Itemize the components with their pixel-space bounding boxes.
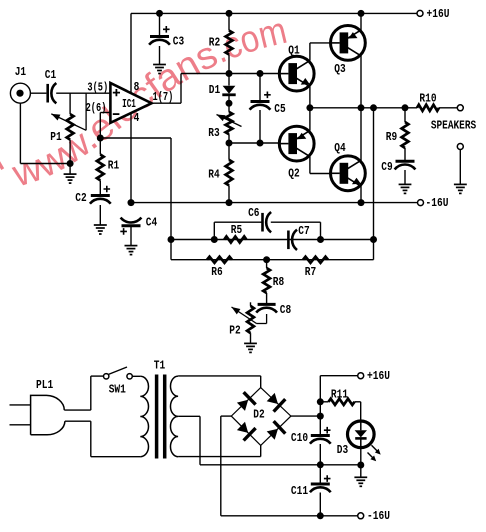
svg-text:Q2: Q2 <box>288 166 299 180</box>
ground under C9 <box>399 183 412 185</box>
wire C6 branch <box>213 222 215 239</box>
svg-text:R11: R11 <box>331 387 348 401</box>
wire -16V rail <box>131 202 418 204</box>
node D1-R3 junction <box>226 100 233 107</box>
node C11 bottom junction <box>317 512 324 519</box>
svg-text:Q4: Q4 <box>334 141 345 155</box>
resistor R6 <box>207 257 232 263</box>
capacitor C2 <box>104 186 111 193</box>
resistor R4 <box>228 143 230 160</box>
node C6 left junction <box>211 236 218 243</box>
svg-text:P1: P1 <box>50 130 61 144</box>
svg-text:1(7): 1(7) <box>153 90 174 104</box>
svg-text:R7: R7 <box>305 265 316 279</box>
wire plug bottom <box>65 420 91 422</box>
terminal speaker - <box>457 144 463 150</box>
node R1 junction <box>97 135 104 142</box>
capacitor C10 <box>324 427 331 434</box>
ground under C2 <box>94 224 107 226</box>
transistor Q4 <box>331 156 366 191</box>
node R2 top junction <box>226 10 233 17</box>
wire speaker - to ground <box>459 149 461 184</box>
svg-text:-16U: -16U <box>426 196 449 210</box>
wire secondary top to bridge <box>178 375 261 377</box>
svg-text:4: 4 <box>134 111 140 125</box>
resistor R1 <box>99 138 101 155</box>
wire output line <box>310 107 417 109</box>
wire secondary bottom to bridge <box>178 456 261 458</box>
svg-text:R1: R1 <box>108 158 119 172</box>
node pin4 C4 junction <box>128 199 135 206</box>
svg-text:R4: R4 <box>208 168 219 182</box>
wire P1 bottom to ground node <box>69 140 71 164</box>
connector J1 <box>10 83 30 103</box>
wire Q2 bottom to Q4 base <box>309 157 311 174</box>
wire C1 to op-amp pin3 <box>56 92 110 94</box>
wire J1 down <box>19 103 21 163</box>
svg-text:Q3: Q3 <box>334 62 345 76</box>
bridge diode upper-right <box>267 393 278 404</box>
svg-text:C10: C10 <box>291 431 308 445</box>
capacitor C3 <box>159 13 161 35</box>
wire Q1 emitter to output line <box>309 87 311 108</box>
op-amp IC1 <box>110 83 151 123</box>
D3 light arrows <box>372 445 379 452</box>
ground under C3 <box>153 64 166 66</box>
svg-text:D1: D1 <box>209 83 220 97</box>
terminal +16V top <box>417 10 423 16</box>
terminal +16V supply <box>358 373 364 379</box>
svg-text:8: 8 <box>134 80 140 94</box>
svg-text:R8: R8 <box>273 275 284 289</box>
wire Q1 collector to Q3 base <box>309 43 311 61</box>
resistor R9 <box>404 108 406 122</box>
svg-text:R3: R3 <box>208 126 219 140</box>
wire SW1 to T1 <box>132 375 140 377</box>
wire down to P1 top <box>69 93 71 114</box>
node C3 top junction <box>156 10 163 17</box>
svg-text:C3: C3 <box>173 34 184 48</box>
svg-text:T1: T1 <box>154 359 165 373</box>
wire op-amp pin4 to -16V rail <box>130 113 132 203</box>
LED D3 <box>348 421 375 448</box>
trimmer R3 <box>226 112 233 134</box>
plug PL1 <box>31 395 65 434</box>
svg-text:+16U: +16U <box>427 7 450 21</box>
node feedback branch junction <box>370 104 377 111</box>
terminal speaker + <box>457 105 463 111</box>
ground under P2 <box>244 342 257 344</box>
ground under C4 <box>125 245 138 247</box>
potentiometer P1 <box>67 114 74 140</box>
node R8 top junction <box>263 256 270 263</box>
svg-text:R10: R10 <box>419 91 436 105</box>
svg-text:SW1: SW1 <box>109 382 126 396</box>
terminal -16V right <box>418 200 424 206</box>
node bias A junction <box>226 70 233 77</box>
wire feedback vertical right <box>373 108 375 240</box>
wire +16V top rail <box>131 12 417 14</box>
resistor R8 <box>266 260 268 268</box>
wire feedback upper rail <box>171 239 374 241</box>
svg-text:C1: C1 <box>45 68 56 82</box>
svg-text:R2: R2 <box>209 35 220 49</box>
node feedback right junction <box>370 236 377 243</box>
svg-text:SPEAKERS: SPEAKERS <box>431 119 476 133</box>
resistor R7 <box>303 257 328 263</box>
svg-text:+16U: +16U <box>367 369 390 383</box>
svg-text:D3: D3 <box>337 443 348 457</box>
node feedback left junction <box>168 236 175 243</box>
svg-text:C9: C9 <box>381 160 392 174</box>
wire Q3 vertical +16V to output <box>360 13 362 107</box>
wire bridge minus <box>221 415 232 417</box>
transistor Q3 <box>331 26 366 61</box>
bridge rectifier D2 <box>231 388 291 446</box>
capacitor C11 <box>324 475 331 482</box>
node R11 junction <box>317 398 324 405</box>
resistor R2 <box>228 13 230 30</box>
capacitor C4 <box>121 218 142 223</box>
wire Q2 top to output line <box>309 108 311 131</box>
wire J1 to C1 <box>30 92 46 94</box>
svg-text:C4: C4 <box>146 215 157 229</box>
P1 wiper arrow to pin3 wire <box>51 114 86 130</box>
transformer T1 secondary coil <box>170 376 178 457</box>
svg-text:D2: D2 <box>253 407 264 421</box>
bridge diode lower-right <box>267 429 278 440</box>
wire feedback lower rail <box>171 259 374 261</box>
node Q1-Q2 output junction <box>306 104 313 111</box>
svg-text:C6: C6 <box>248 206 259 220</box>
capacitor C7 <box>287 231 290 250</box>
wire plug top to SW1 <box>64 409 91 411</box>
node C6 right junction <box>317 236 324 243</box>
svg-text:3(5): 3(5) <box>87 80 108 94</box>
capacitor C9 <box>396 160 415 163</box>
transistor Q1 <box>279 56 314 91</box>
wire op-amp pin2 <box>100 112 110 114</box>
svg-text:R9: R9 <box>386 130 397 144</box>
node P1 ground junction <box>67 160 74 167</box>
svg-text:C11: C11 <box>291 484 308 498</box>
wire P2 to ground <box>250 333 252 343</box>
transistor Q2 <box>279 126 314 161</box>
capacitor C1 <box>46 84 49 103</box>
svg-text:R5: R5 <box>231 223 242 237</box>
wire bias A to Q1 base <box>229 73 279 75</box>
node Q3-Q4 output junction <box>358 104 365 111</box>
node center tap junction <box>317 461 324 468</box>
node C5 top junction <box>257 70 264 77</box>
node bias B junction <box>226 140 233 147</box>
capacitor C8 <box>258 303 276 306</box>
transformer T1 core <box>157 375 165 459</box>
wire secondary center tap <box>178 415 200 417</box>
potentiometer P2 <box>250 302 252 306</box>
svg-text:IC1: IC1 <box>122 97 136 111</box>
node Q4 emitter -16V junction <box>358 199 365 206</box>
svg-text:R6: R6 <box>211 265 222 279</box>
resistor R10 <box>417 105 439 111</box>
wire bridge plus to C10 <box>291 415 320 417</box>
svg-text:C8: C8 <box>280 303 291 317</box>
wire bias B to Q2 base <box>229 142 279 144</box>
R3 wiper arrow <box>217 115 242 127</box>
wire R1 node to feedback <box>100 137 171 139</box>
node C5 bottom junction <box>257 140 264 147</box>
wire D3 to ground node <box>360 447 362 465</box>
transformer T1 primary coil <box>140 376 148 456</box>
wire Q4 vertical output to -16V <box>360 108 362 203</box>
ground under D3 <box>320 464 361 466</box>
svg-text:PL1: PL1 <box>36 378 53 392</box>
wire -16V supply line <box>320 515 357 517</box>
switch SW1 <box>104 374 109 379</box>
svg-text:Q1: Q1 <box>288 43 299 57</box>
svg-text:C7: C7 <box>298 224 309 238</box>
svg-text:-16U: -16U <box>367 509 390 523</box>
node D3 ground junction <box>357 462 364 469</box>
terminal -16V supply <box>358 513 364 519</box>
node R4 bottom junction <box>226 199 233 206</box>
node Q3 collector junction <box>358 10 365 17</box>
wire op-amp output 1(7) <box>152 102 181 104</box>
node R9 branch junction <box>402 104 409 111</box>
resistor R5 <box>224 236 246 242</box>
P2 wiper arrow to C8 <box>232 307 257 324</box>
svg-text:C2: C2 <box>75 191 86 205</box>
svg-text:P2: P2 <box>229 324 240 338</box>
diode D1 <box>228 74 230 86</box>
bridge diode lower-left <box>237 422 248 433</box>
wire primary bottom <box>91 456 141 458</box>
svg-text:C5: C5 <box>274 102 285 116</box>
ground under speaker terminal <box>454 183 467 185</box>
svg-text:J1: J1 <box>15 65 26 79</box>
node bridge plus junction <box>317 413 324 420</box>
capacitor C5 <box>259 74 261 101</box>
resistor R11 <box>320 401 328 403</box>
capacitor C6 <box>261 213 264 232</box>
wire op-amp pin8 to +16V rail <box>130 13 132 93</box>
bridge diode upper-left <box>237 400 248 411</box>
wire +16V supply line <box>320 375 357 377</box>
wire bridge bottom stub <box>260 445 262 456</box>
ground under P1 <box>69 164 71 175</box>
